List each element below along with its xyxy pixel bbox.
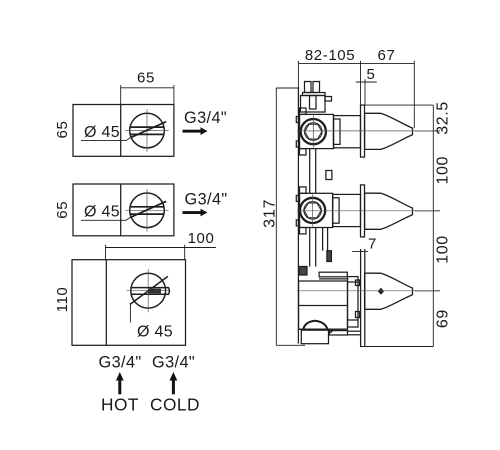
svg-text:65: 65: [54, 121, 71, 139]
centerline valve 1: [297, 130, 433, 132]
svg-text:65: 65: [137, 70, 155, 87]
pipe between valve1 and valve2: [310, 149, 316, 194]
handle 1: [365, 113, 413, 149]
svg-text:69: 69: [435, 309, 452, 328]
centerline valve 2: [297, 210, 433, 212]
dimension 5 (plate thickness): [356, 79, 377, 105]
mounting bracket top: [301, 82, 332, 113]
svg-text:82-105: 82-105: [305, 47, 355, 64]
handle circle view 1: [130, 113, 165, 148]
bottom arch outlet: [303, 321, 327, 329]
svg-text:317: 317: [262, 199, 279, 228]
svg-text:67: 67: [378, 47, 396, 64]
handle circle view 3: [131, 273, 166, 308]
leader line view 1: [81, 138, 130, 141]
pipes between valve2 and valve3: [310, 228, 328, 267]
lever bars circle 2: [130, 201, 166, 217]
dimension 317 (left, rotated): [276, 88, 305, 345]
centerline valve 3: [297, 290, 433, 292]
svg-text:100: 100: [435, 235, 452, 264]
rosette plate valve 2: [361, 185, 365, 237]
view 2 plate outline: [73, 184, 174, 236]
leader line view 3: [129, 304, 131, 322]
svg-text:32.5: 32.5: [435, 101, 452, 135]
svg-text:65: 65: [54, 201, 71, 219]
svg-text:G3/4": G3/4": [185, 191, 228, 209]
centerlines circle 2: [125, 189, 168, 232]
dimension 7 (big plate thickness): [352, 251, 368, 253]
valve 1 cartridge circles: [301, 119, 326, 144]
valve 1 block: [296, 108, 333, 155]
view 3 plate outline: [72, 260, 186, 346]
svg-text:G3/4": G3/4": [99, 354, 142, 372]
lever bars circle 1: [130, 122, 166, 138]
handle circle view 2: [130, 193, 165, 228]
valve 3 cartridge stack: [348, 277, 360, 327]
svg-text:Ø 45: Ø 45: [137, 324, 173, 341]
valve 2 sleeve: [333, 194, 361, 226]
dimension 65 (top of view 1): [121, 85, 174, 105]
svg-text:Ø 45: Ø 45: [84, 124, 120, 141]
cold inlet arrow: [170, 372, 178, 394]
centerlines circle 3: [127, 269, 170, 312]
svg-text:HOT: HOT: [101, 395, 139, 415]
right dimension chain: [360, 105, 440, 346]
svg-text:110: 110: [54, 287, 71, 313]
svg-text:7: 7: [368, 236, 377, 253]
handle 3 diamond: [378, 288, 384, 295]
dimension 82-105 / 67 (top): [298, 61, 414, 128]
valve 1 crosshair: [312, 116, 314, 148]
elbow block left above valve3: [299, 267, 307, 276]
svg-text:COLD: COLD: [150, 395, 200, 415]
valve 1 sleeve: [334, 116, 361, 148]
flow arrow 1: [183, 127, 208, 135]
handle 2: [365, 193, 413, 229]
svg-text:100: 100: [435, 156, 452, 185]
body back line: [297, 88, 299, 344]
valve 2 cartridge circles: [300, 198, 325, 223]
flow arrow 2: [183, 209, 208, 217]
centerlines circle 1: [125, 109, 168, 152]
rosette plate valve 1: [361, 105, 365, 157]
svg-text:G3/4": G3/4": [184, 109, 227, 127]
svg-text:Ø 45: Ø 45: [84, 204, 120, 221]
valve 2 block: [296, 187, 332, 234]
dimension 100 (above view 3): [106, 245, 217, 260]
screw between valve1 and valve2: [326, 171, 332, 180]
lever view 3: [130, 276, 169, 304]
view 1 plate outline: [73, 105, 174, 157]
lever grip dark fill view 3: [148, 289, 161, 294]
leader line view 2: [81, 218, 130, 221]
hot inlet arrow: [116, 372, 124, 394]
valve 2 crosshair: [312, 194, 314, 226]
big plate valve 3: [361, 249, 365, 347]
screw above valve3: [327, 251, 332, 262]
valve 3 block: [299, 272, 349, 329]
svg-text:5: 5: [367, 66, 376, 83]
svg-text:G3/4": G3/4": [152, 354, 195, 372]
handle 3: [365, 273, 413, 309]
svg-text:100: 100: [188, 230, 215, 247]
